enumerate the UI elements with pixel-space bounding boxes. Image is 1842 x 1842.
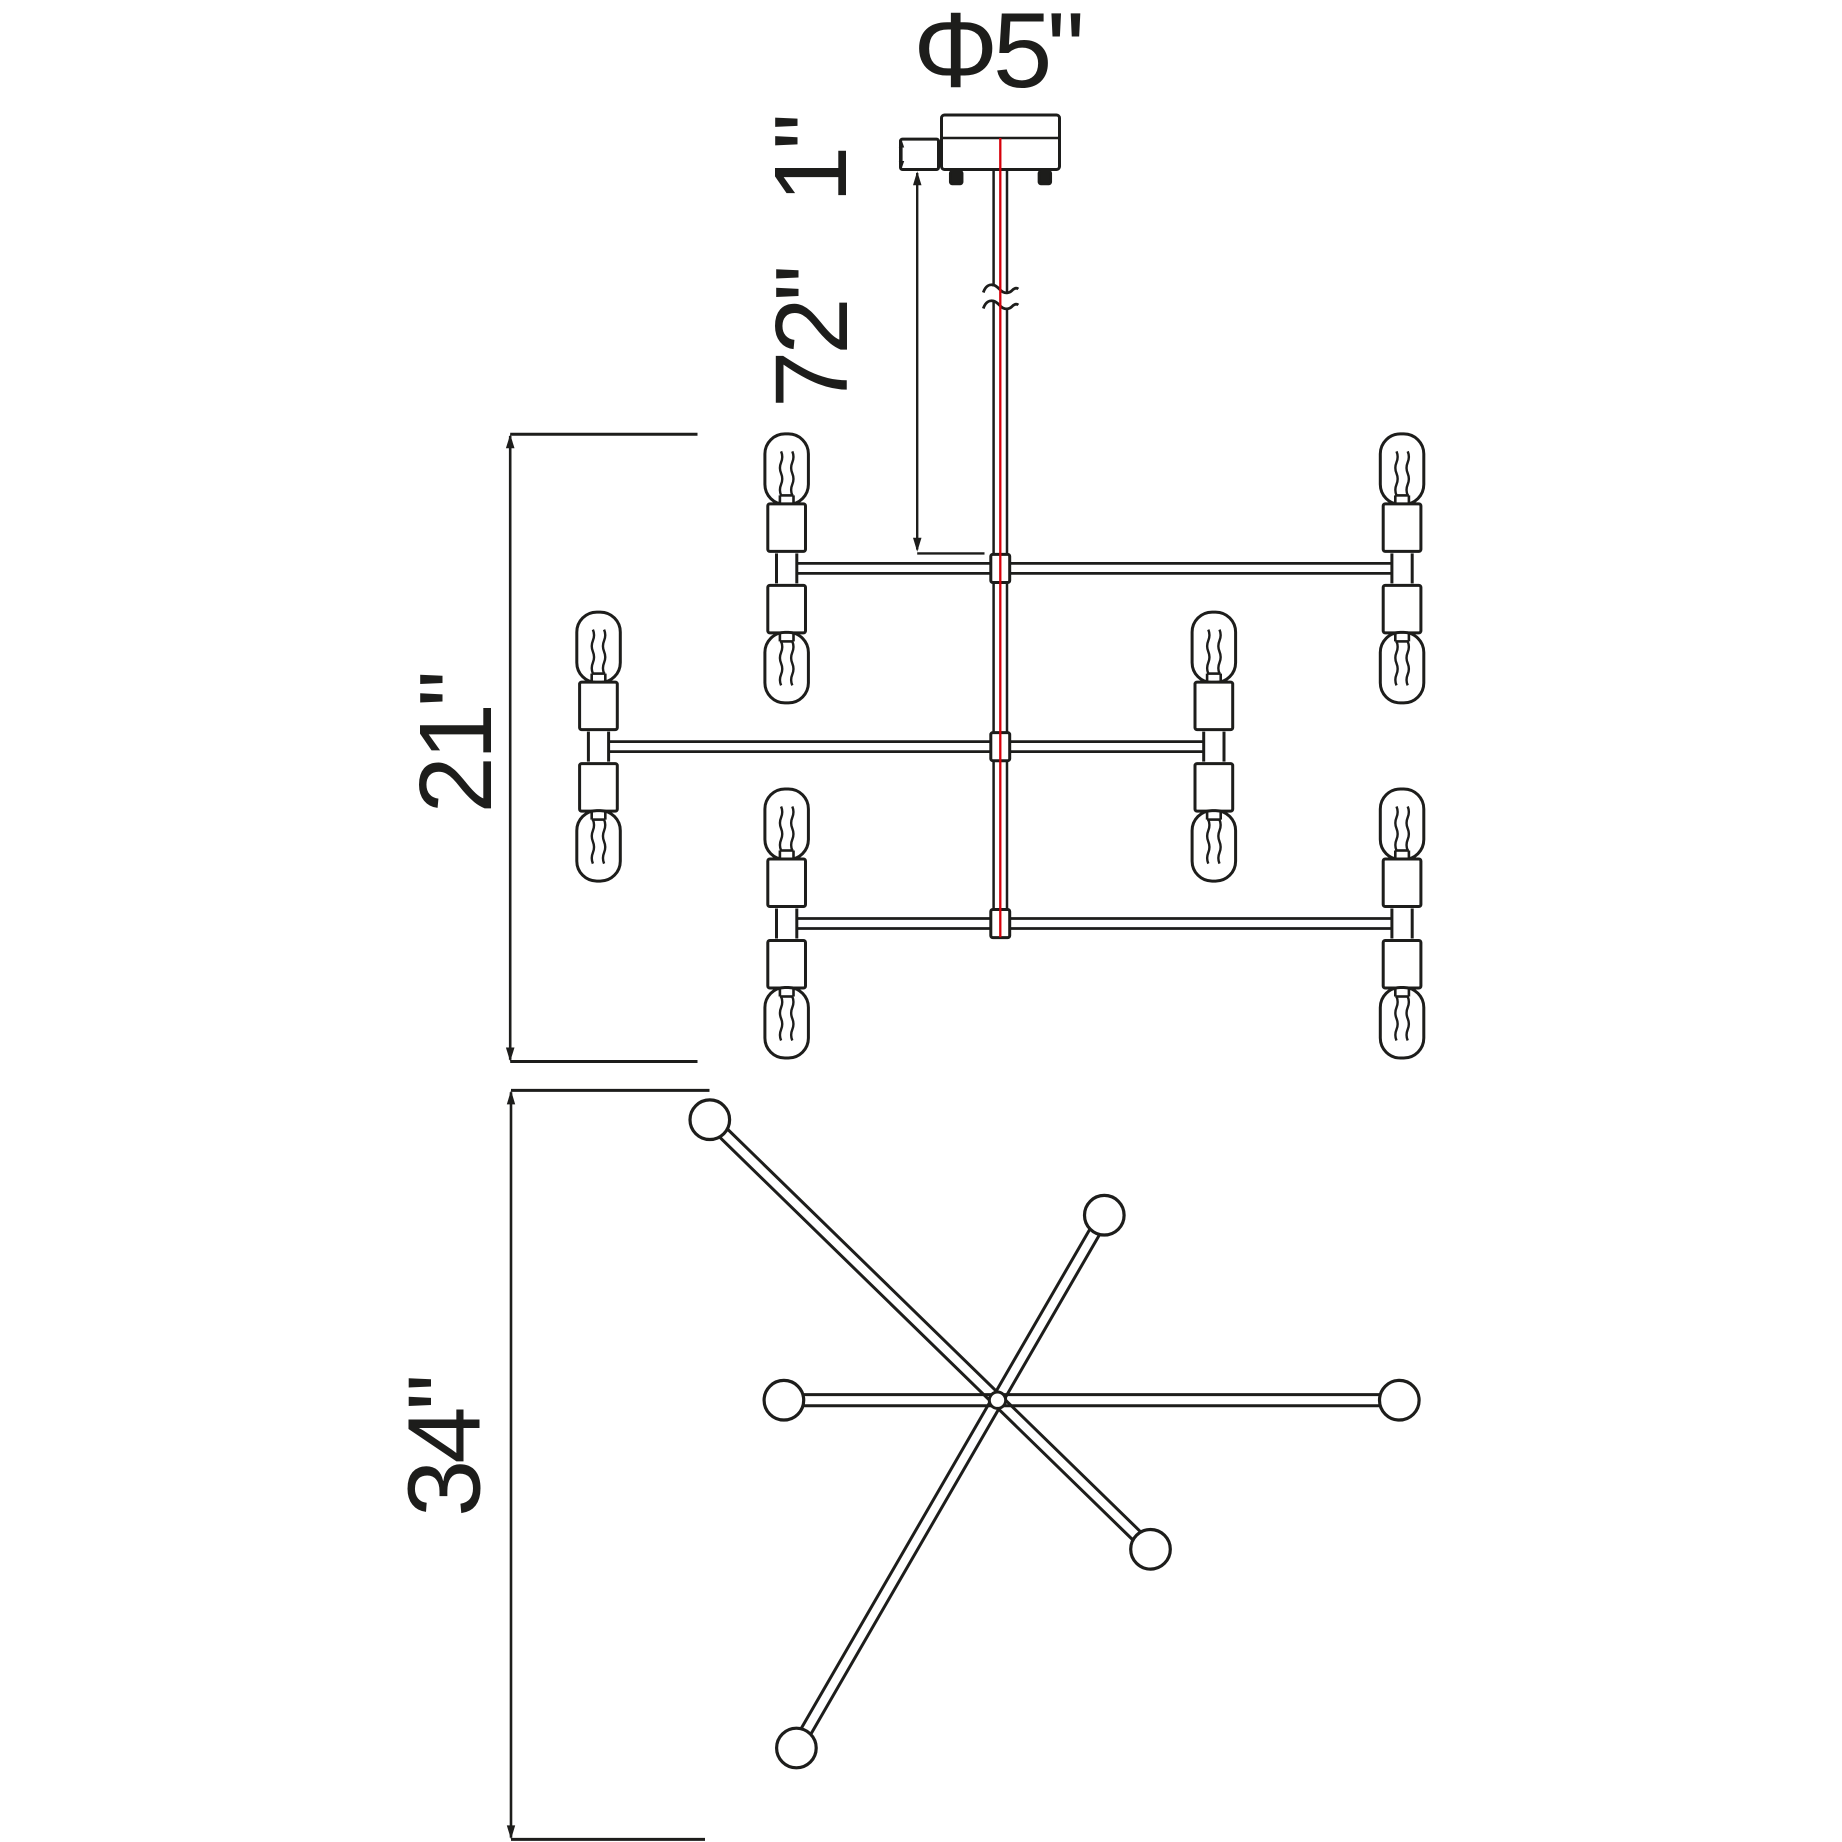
dimension 34in extension ticks bbox=[511, 1090, 710, 1839]
plan bulb right bbox=[1380, 1380, 1420, 1420]
label 21in bbox=[398, 674, 513, 814]
hub block tier 1 bbox=[991, 554, 1010, 582]
canopy plate bbox=[941, 115, 1060, 170]
label 34in bbox=[387, 1377, 502, 1517]
rod red centre line bbox=[999, 138, 1001, 937]
lamp unit tier 2 right bbox=[1192, 612, 1236, 881]
lamp unit tier 3 left bbox=[765, 789, 809, 1058]
canopy 1in height arrow bbox=[899, 140, 904, 170]
lamp unit tier 1 left bbox=[765, 434, 809, 703]
arm tier 1 bbox=[797, 563, 1392, 573]
canopy side tab bbox=[901, 139, 939, 169]
dimension line 34in bbox=[507, 1090, 515, 1839]
dimension line 72in bbox=[913, 171, 985, 553]
plan arm upper left-lower right bbox=[720, 1130, 1140, 1540]
dimension 21in extension ticks bbox=[510, 434, 697, 1061]
svg-text:Φ5": Φ5" bbox=[913, 0, 1081, 110]
svg-text:21": 21" bbox=[398, 674, 513, 814]
svg-text:1": 1" bbox=[753, 117, 868, 203]
plan bulb upper right bbox=[1085, 1195, 1125, 1235]
lamp unit tier 2 left bbox=[577, 612, 621, 881]
label diameter 5in bbox=[913, 0, 1081, 110]
label 1in bbox=[753, 117, 868, 203]
lamp unit tier 1 right bbox=[1380, 434, 1424, 703]
plan centre hub bbox=[989, 1392, 1005, 1408]
plan bulb lower left bbox=[777, 1728, 817, 1768]
plan arm lower left-upper right bbox=[801, 1230, 1099, 1734]
hub block tier 3 bbox=[991, 910, 1010, 938]
hub block tier 2 bbox=[991, 733, 1010, 761]
plan arm left-right bbox=[804, 1395, 1380, 1406]
lamp unit tier 3 right bbox=[1380, 789, 1424, 1058]
svg-text:34": 34" bbox=[387, 1377, 502, 1517]
arm tier 2 bbox=[609, 742, 1204, 752]
arm tier 3 bbox=[797, 919, 1392, 929]
rod break symbol bbox=[983, 285, 1018, 309]
dimension line 21in bbox=[506, 434, 515, 1061]
plan bulb upper left bbox=[690, 1100, 730, 1140]
plan bulb left bbox=[764, 1380, 804, 1420]
canopy mounting feet bbox=[950, 171, 1051, 184]
svg-text:72": 72" bbox=[754, 268, 869, 408]
stem rod outline bbox=[994, 171, 1007, 937]
label 72in bbox=[754, 268, 869, 408]
plan bulb lower right bbox=[1131, 1530, 1171, 1570]
